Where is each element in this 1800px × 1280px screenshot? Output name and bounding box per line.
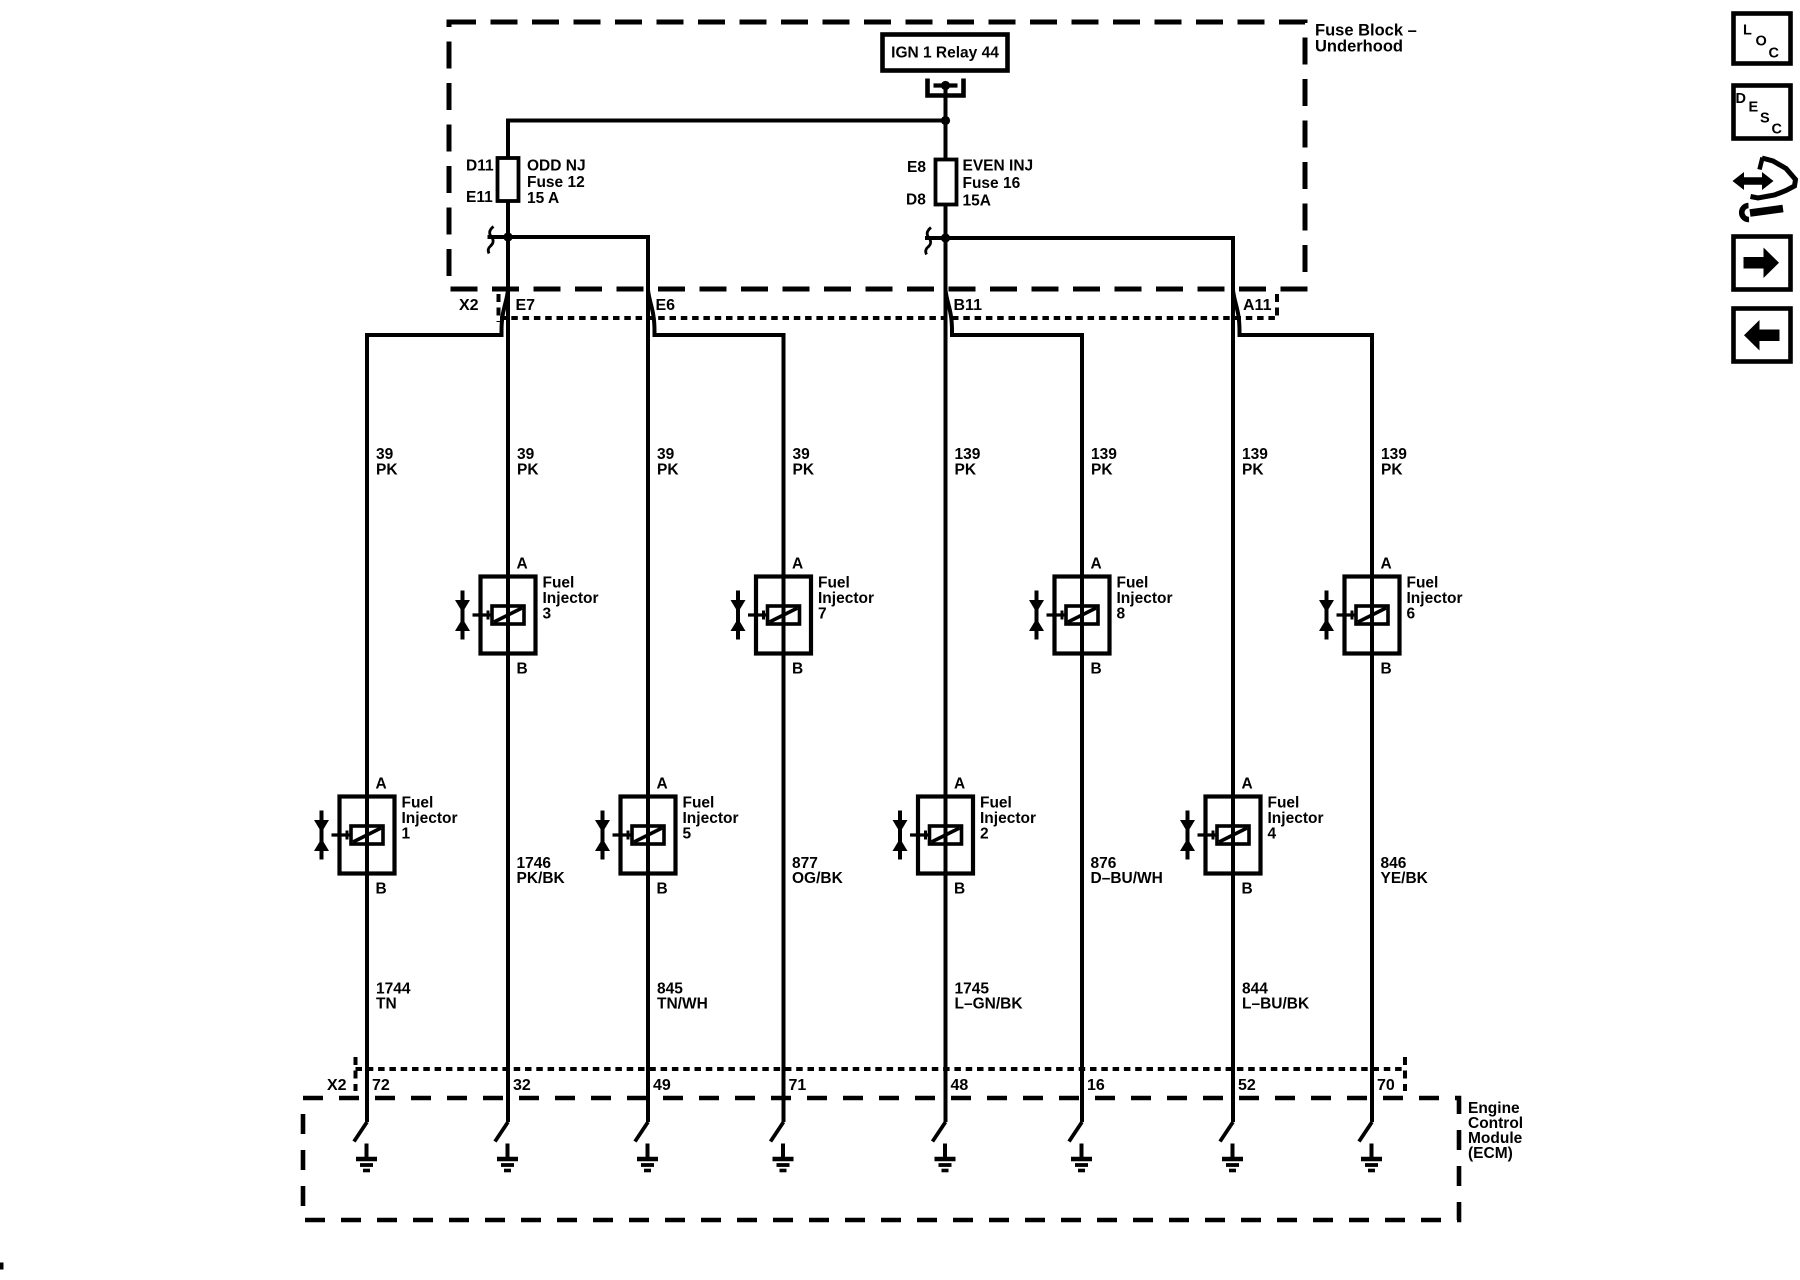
wire label 844 (injector 4 control) xyxy=(1242,981,1310,1013)
svg-text:Injector: Injector xyxy=(1117,590,1173,607)
fuel injector 3 xyxy=(455,577,536,654)
svg-text:A: A xyxy=(1381,556,1392,573)
svg-text:139: 139 xyxy=(1091,446,1117,463)
svg-text:Fuel: Fuel xyxy=(543,575,575,592)
fuel injector 5 xyxy=(595,797,676,874)
svg-text:OG/BK: OG/BK xyxy=(792,870,844,887)
wire: fuse 16 output down (net 139 PK to injector 2) xyxy=(944,205,948,1123)
splice curl symbol left of fuse 16 junction xyxy=(926,228,931,255)
svg-text:7: 7 xyxy=(818,606,827,623)
icon box arrow left xyxy=(1734,309,1791,362)
ECM band left tick xyxy=(354,1057,358,1091)
svg-text:D8: D8 xyxy=(906,192,926,209)
pin label A (injector 5) xyxy=(657,776,668,793)
pin label B (injector 4) xyxy=(1242,881,1253,898)
pin label B (injector 8) xyxy=(1091,661,1102,678)
wire label 39 PK (injector 1 feed) xyxy=(376,446,398,479)
wire label 139 PK (injector 8 feed) xyxy=(1091,446,1117,479)
ECM driver switch for injector 7 xyxy=(771,1122,784,1142)
svg-text:Fuse 16: Fuse 16 xyxy=(963,175,1021,192)
label: Fuel Injector 2 xyxy=(980,795,1036,843)
svg-text:71: 71 xyxy=(789,1077,807,1094)
wire label 139 PK (injector 4 feed) xyxy=(1242,446,1268,479)
svg-text:139: 139 xyxy=(1381,446,1407,463)
wire: branch from fuse 16 junction right to terminal A11 xyxy=(946,238,1234,1122)
svg-text:Fuel: Fuel xyxy=(1407,575,1439,592)
pin label A (injector 8) xyxy=(1091,556,1102,573)
svg-text:E7: E7 xyxy=(516,297,536,314)
connector X2 band left tick xyxy=(497,294,501,322)
svg-text:PK: PK xyxy=(376,462,398,479)
svg-text:D–BU/WH: D–BU/WH xyxy=(1091,870,1163,887)
ground symbol (injector 5 driver) xyxy=(637,1144,658,1171)
svg-text:Injector: Injector xyxy=(1407,590,1463,607)
ECM pin label 16 xyxy=(1087,1077,1105,1094)
svg-text:Injector: Injector xyxy=(980,810,1036,827)
svg-text:A: A xyxy=(1242,776,1253,793)
ground symbol (injector 6 driver) xyxy=(1361,1144,1382,1171)
fuse block underhood dashed outline box xyxy=(449,22,1305,289)
svg-text:Fuel: Fuel xyxy=(980,795,1012,812)
terminal label E6 xyxy=(656,297,676,314)
svg-text:48: 48 xyxy=(951,1077,969,1094)
svg-text:Injector: Injector xyxy=(402,810,458,827)
wire stub left of fuse 12 junction xyxy=(488,235,509,239)
pin label B (injector 2) xyxy=(954,881,965,898)
svg-text:E: E xyxy=(1749,100,1759,116)
svg-text:3: 3 xyxy=(543,606,552,623)
svg-text:B: B xyxy=(1381,661,1392,678)
wire: relay output down to junction xyxy=(944,87,948,121)
terminal label E7 xyxy=(516,297,536,314)
junction node below fuse 12 xyxy=(503,232,512,241)
svg-text:4: 4 xyxy=(1268,826,1277,843)
ground symbol (injector 2 driver) xyxy=(935,1144,956,1171)
svg-text:E8: E8 xyxy=(907,159,926,176)
svg-text:B11: B11 xyxy=(954,297,983,314)
junction node below fuse 16 xyxy=(941,233,950,242)
wire: branch B11 jog right to injector 8 column xyxy=(946,290,1083,1122)
value label: ODD NJ Fuse 12 15 A xyxy=(527,158,586,208)
diagnostic wrench icon xyxy=(1733,158,1796,220)
svg-text:O: O xyxy=(1756,34,1767,50)
svg-text:1: 1 xyxy=(402,826,411,843)
svg-text:A: A xyxy=(517,556,528,573)
svg-text:8: 8 xyxy=(1117,606,1126,623)
svg-text:39: 39 xyxy=(657,446,675,463)
svg-text:B: B xyxy=(954,881,965,898)
svg-text:Injector: Injector xyxy=(1268,810,1324,827)
pin label A (injector 1) xyxy=(376,776,387,793)
ECM driver switch for injector 5 xyxy=(635,1122,648,1142)
pin label D8 (fuse 16 bottom) xyxy=(906,192,926,209)
svg-text:PK: PK xyxy=(793,462,815,479)
label: Fuel Injector 7 xyxy=(818,575,874,623)
ground symbol (injector 7 driver) xyxy=(773,1144,794,1171)
svg-text:PK: PK xyxy=(1091,462,1113,479)
svg-text:TN/WH: TN/WH xyxy=(657,996,708,1013)
ground symbol (injector 8 driver) xyxy=(1071,1144,1092,1171)
splice curl symbol left of fuse 12 junction xyxy=(488,227,493,254)
ECM pin label 71 xyxy=(789,1077,807,1094)
svg-text:PK: PK xyxy=(955,462,977,479)
svg-text:D: D xyxy=(1736,91,1746,107)
svg-text:E11: E11 xyxy=(466,189,493,206)
pin label A (injector 3) xyxy=(517,556,528,573)
svg-text:X2: X2 xyxy=(327,1077,347,1094)
ECM band right tick xyxy=(1403,1057,1407,1091)
relay 44 contact terminal symbol xyxy=(928,79,964,96)
label: Fuel Injector 1 xyxy=(402,795,458,843)
pin label A (injector 4) xyxy=(1242,776,1253,793)
pin label B (injector 1) xyxy=(376,881,387,898)
svg-text:PK: PK xyxy=(517,462,539,479)
ECM driver switch for injector 8 xyxy=(1069,1122,1082,1142)
svg-text:52: 52 xyxy=(1238,1077,1256,1094)
wire label 845 (injector 5 control) xyxy=(657,981,708,1013)
ground symbol (injector 4 driver) xyxy=(1222,1144,1243,1171)
icon box LOC xyxy=(1734,14,1791,64)
fuse 12 symbol (ODD NJ 15 A) xyxy=(498,158,519,201)
svg-text:139: 139 xyxy=(1242,446,1268,463)
ECM driver switch for injector 3 xyxy=(495,1122,508,1142)
wire: junction down to fuse 16 xyxy=(944,121,948,160)
wire: branch E7 jog left to injector 1 column xyxy=(367,290,508,1122)
wire label 1745 (injector 2 control) xyxy=(955,981,1024,1013)
svg-text:C: C xyxy=(1772,122,1783,138)
svg-text:E6: E6 xyxy=(656,297,676,314)
svg-text:15A: 15A xyxy=(963,193,991,210)
wire label 1746 (injector 3 control) xyxy=(517,855,566,887)
label: Fuel Injector 5 xyxy=(683,795,739,843)
svg-text:ODD NJ: ODD NJ xyxy=(527,158,586,175)
svg-text:B: B xyxy=(1242,881,1253,898)
svg-text:YE/BK: YE/BK xyxy=(1381,870,1429,887)
svg-text:70: 70 xyxy=(1377,1077,1395,1094)
svg-text:39: 39 xyxy=(517,446,535,463)
svg-text:(ECM): (ECM) xyxy=(1468,1145,1513,1162)
label: Fuse Block - Underhood xyxy=(1315,22,1417,56)
ECM pin label 49 xyxy=(653,1077,671,1094)
wire label 39 PK (injector 5 feed) xyxy=(657,446,679,479)
svg-text:A: A xyxy=(657,776,668,793)
svg-text:C: C xyxy=(1769,46,1780,62)
wire label 1744 (injector 1 control) xyxy=(376,981,411,1013)
svg-text:6: 6 xyxy=(1407,606,1416,623)
svg-text:Underhood: Underhood xyxy=(1315,38,1403,56)
wire label 139 PK (injector 6 feed) xyxy=(1381,446,1407,479)
svg-text:S: S xyxy=(1760,111,1770,127)
pin label A (injector 7) xyxy=(792,556,803,573)
value label: EVEN INJ Fuse 16 15A xyxy=(963,158,1034,210)
svg-text:72: 72 xyxy=(372,1077,390,1094)
edge mark (scan artifact) xyxy=(0,1263,4,1270)
svg-text:2: 2 xyxy=(980,826,989,843)
wire: branch E6 jog right to injector 7 column xyxy=(648,290,784,1122)
svg-text:15 A: 15 A xyxy=(527,190,559,207)
pin label B (injector 6) xyxy=(1381,661,1392,678)
pin label B (injector 5) xyxy=(657,881,668,898)
pin label B (injector 3) xyxy=(517,661,528,678)
svg-text:B: B xyxy=(1091,661,1102,678)
ECM driver switch for injector 6 xyxy=(1359,1122,1372,1142)
pin label E11 (fuse 12 bottom) xyxy=(466,189,493,206)
wire stub left of fuse 16 junction xyxy=(925,236,946,240)
svg-text:PK: PK xyxy=(1242,462,1264,479)
label X2 (ECM connector) xyxy=(327,1077,347,1094)
svg-text:Fuel: Fuel xyxy=(683,795,715,812)
svg-text:32: 32 xyxy=(513,1077,531,1094)
ECM driver switch for injector 4 xyxy=(1220,1122,1233,1142)
svg-text:Fuse 12: Fuse 12 xyxy=(527,174,585,191)
relay U1 box: IGN 1 Relay 44 xyxy=(883,35,1008,71)
svg-text:L–GN/BK: L–GN/BK xyxy=(955,996,1024,1013)
label: Engine Control Module (ECM) xyxy=(1468,1100,1523,1162)
ECM pin label 32 xyxy=(513,1077,531,1094)
svg-text:Fuel: Fuel xyxy=(402,795,434,812)
pin label B (injector 7) xyxy=(792,661,803,678)
wire label 39 PK (injector 7 feed) xyxy=(793,446,815,479)
svg-text:EVEN INJ: EVEN INJ xyxy=(963,158,1034,175)
svg-text:16: 16 xyxy=(1087,1077,1105,1094)
label: Fuel Injector 4 xyxy=(1268,795,1324,843)
wire: fuse 12 output down (net 39 PK to injector 3) xyxy=(506,201,510,1122)
svg-text:Fuel: Fuel xyxy=(1117,575,1149,592)
svg-text:5: 5 xyxy=(683,826,692,843)
svg-text:39: 39 xyxy=(376,446,394,463)
pin label A (injector 6) xyxy=(1381,556,1392,573)
label: Fuel Injector 6 xyxy=(1407,575,1463,623)
ECM pin label 70 xyxy=(1377,1077,1395,1094)
ECM driver switch for injector 1 xyxy=(354,1122,367,1142)
svg-text:D11: D11 xyxy=(466,158,494,175)
svg-text:Injector: Injector xyxy=(818,590,874,607)
svg-text:39: 39 xyxy=(793,446,811,463)
svg-text:L: L xyxy=(1743,23,1752,39)
ECM pin label 48 xyxy=(951,1077,969,1094)
wire label 139 PK (injector 2 feed) xyxy=(955,446,981,479)
label: Fuel Injector 8 xyxy=(1117,575,1173,623)
ECM pin label 72 xyxy=(372,1077,390,1094)
connector X2 band right tick xyxy=(1275,294,1279,317)
svg-text:PK: PK xyxy=(1381,462,1403,479)
fuel injector 2 xyxy=(893,797,974,874)
label: Fuel Injector 3 xyxy=(543,575,599,623)
svg-text:A11: A11 xyxy=(1243,297,1272,314)
icon box DESC xyxy=(1734,86,1791,139)
fuel injector 1 xyxy=(314,797,395,874)
ground symbol (injector 3 driver) xyxy=(497,1144,518,1171)
terminal label B11 xyxy=(954,297,983,314)
wire: branch from fuse 12 junction right to terminal E6 xyxy=(508,237,648,1122)
svg-text:A: A xyxy=(792,556,803,573)
svg-text:49: 49 xyxy=(653,1077,671,1094)
ECM pin label 52 xyxy=(1238,1077,1256,1094)
wire label 876 (injector 8 control) xyxy=(1091,855,1163,887)
wire label 846 (injector 6 control) xyxy=(1381,855,1429,887)
svg-text:139: 139 xyxy=(955,446,981,463)
svg-text:PK: PK xyxy=(657,462,679,479)
icon box arrow right xyxy=(1734,237,1791,290)
svg-text:IGN 1 Relay 44: IGN 1 Relay 44 xyxy=(891,45,999,62)
fuel injector 8 xyxy=(1029,577,1110,654)
connector X2 band dotted line (fuse block pass-through) xyxy=(500,316,1277,320)
svg-text:L–BU/BK: L–BU/BK xyxy=(1242,996,1310,1013)
pin label D11 (fuse 12 top) xyxy=(466,158,494,175)
svg-text:A: A xyxy=(954,776,965,793)
wire label 877 (injector 7 control) xyxy=(792,855,844,887)
label X2 (fuse block connector) xyxy=(459,297,479,314)
ECM driver switch for injector 2 xyxy=(933,1122,946,1142)
junction node at relay output bus xyxy=(941,116,950,125)
ECM dashed outline box xyxy=(303,1098,1459,1220)
fuel injector 4 xyxy=(1180,797,1261,874)
wire: bus from junction left to fuse 12 branch xyxy=(508,121,946,159)
fuel injector 6 xyxy=(1319,577,1400,654)
fuel injector 7 xyxy=(731,577,812,654)
wire: branch A11 jog right to injector 6 column xyxy=(1233,290,1372,1122)
svg-text:X2: X2 xyxy=(459,297,479,314)
svg-text:A: A xyxy=(1091,556,1102,573)
fuse 16 symbol (EVEN INJ 15A) xyxy=(936,160,957,205)
svg-text:PK/BK: PK/BK xyxy=(517,870,566,887)
terminal label A11 xyxy=(1243,297,1272,314)
svg-text:B: B xyxy=(792,661,803,678)
wire label 39 PK (injector 3 feed) xyxy=(517,446,539,479)
svg-text:TN: TN xyxy=(376,996,397,1013)
svg-text:A: A xyxy=(376,776,387,793)
svg-text:B: B xyxy=(517,661,528,678)
svg-text:Injector: Injector xyxy=(543,590,599,607)
svg-text:Fuel: Fuel xyxy=(818,575,850,592)
pin label E8 (fuse 16 top) xyxy=(907,159,926,176)
pin label A (injector 2) xyxy=(954,776,965,793)
svg-text:B: B xyxy=(657,881,668,898)
svg-text:Fuel: Fuel xyxy=(1268,795,1300,812)
svg-text:B: B xyxy=(376,881,387,898)
ground symbol (injector 1 driver) xyxy=(356,1144,377,1171)
ECM connector X2 band dotted line xyxy=(356,1067,1406,1071)
svg-text:Injector: Injector xyxy=(683,810,739,827)
